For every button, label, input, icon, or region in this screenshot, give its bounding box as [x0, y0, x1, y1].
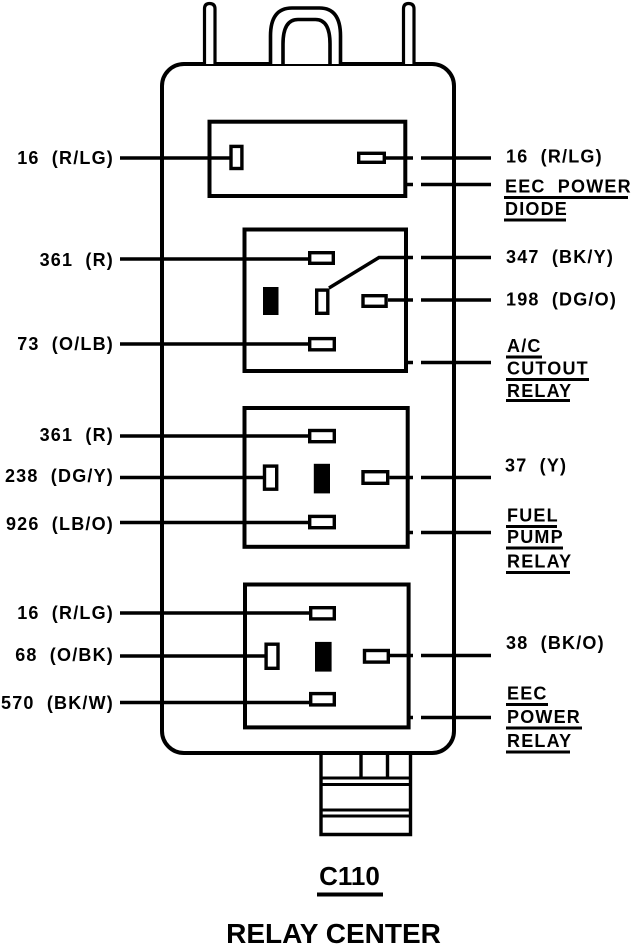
EEC relay top pin: [311, 608, 335, 619]
wire: leader EEC POWER DIODE: [407, 183, 491, 186]
wire: left leader 926 (LB/O) to fuel pump bottom pin: [120, 521, 309, 524]
wire: diagonal from middle pin to 347 (BK/Y): [329, 258, 407, 289]
EEC relay filled contact: [316, 643, 331, 671]
A/C relay right pin (horizontal): [363, 296, 386, 307]
svg-text:37 (Y): 37 (Y): [505, 456, 567, 476]
EEC power relay box: [245, 585, 409, 728]
svg-text:73 (O/LB): 73 (O/LB): [17, 334, 114, 354]
svg-text:RELAY: RELAY: [507, 731, 572, 751]
svg-text:198 (DG/O): 198 (DG/O): [506, 290, 617, 310]
svg-text:RELAY: RELAY: [507, 381, 572, 401]
tail horizontal line 3: [321, 809, 411, 812]
wire: left leader 361 (R) to fuel pump top pin: [120, 434, 309, 437]
A/C relay filled contact: [264, 288, 278, 314]
A/C relay bottom pin: [310, 339, 335, 350]
svg-text:16 (R/LG): 16 (R/LG): [506, 147, 603, 167]
wire: right leader FUEL PUMP RELAY: [410, 531, 492, 534]
wire: right leader 198 (DG/O): [388, 298, 491, 301]
label C110: [317, 861, 383, 895]
svg-text:EEC POWER: EEC POWER: [505, 177, 632, 197]
left top prong: [205, 4, 216, 65]
svg-text:PUMP: PUMP: [507, 527, 564, 547]
wire: left leader 16 (R/LG) to diode pin: [120, 156, 230, 159]
svg-text:RELAY CENTER: RELAY CENTER: [226, 918, 441, 948]
connector body outline: [162, 64, 454, 753]
fuel pump relay bottom pin: [310, 516, 335, 527]
svg-text:16 (R/LG): 16 (R/LG): [17, 603, 114, 623]
tail horizontal line 1: [321, 777, 411, 780]
wire: right leader 347 (BK/Y): [407, 256, 491, 259]
tail horizontal line 2: [321, 783, 411, 786]
wire: right leader A/C CUTOUT RELAY: [408, 361, 491, 364]
fuel pump relay left pin (vertical): [265, 466, 277, 489]
wire: left leader 361 (R) to A/C top pin: [120, 257, 309, 260]
svg-text:POWER: POWER: [507, 707, 581, 727]
svg-text:238 (DG/Y): 238 (DG/Y): [5, 466, 114, 486]
svg-text:361 (R): 361 (R): [40, 425, 114, 445]
fuel pump relay box: [245, 408, 408, 547]
label EEC POWER RELAY: [506, 684, 582, 753]
wire: left leader 570 (BK/W) to EEC relay bottom pin: [120, 701, 310, 704]
svg-text:926 (LB/O): 926 (LB/O): [6, 514, 114, 534]
tail horizontal line 4: [321, 815, 411, 818]
svg-text:361 (R): 361 (R): [40, 250, 114, 270]
diode pin right (horizontal): [359, 153, 385, 162]
wire: left leader 238 (DG/Y) to fuel pump left pin: [120, 476, 264, 479]
A/C relay middle pin (vertical): [317, 290, 328, 313]
latch handle outer arc: [271, 8, 341, 64]
A/C cutout relay box: [245, 230, 407, 372]
label FUEL PUMP RELAY: [506, 506, 572, 573]
diode pin left (vertical): [231, 146, 242, 168]
fuel pump relay top pin: [310, 431, 335, 442]
A/C relay top pin: [310, 253, 334, 264]
fuel pump relay right pin (horizontal): [363, 472, 388, 484]
wire: right leader 38 (BK/O): [390, 654, 491, 657]
svg-text:570 (BK/W): 570 (BK/W): [1, 693, 114, 713]
label EEC POWER DIODE: [504, 177, 632, 221]
svg-text:A/C: A/C: [507, 336, 542, 356]
wire: right leader 16 (R/LG): [386, 156, 491, 159]
tail divider vertical left: [359, 755, 362, 778]
svg-text:DIODE: DIODE: [505, 199, 568, 219]
wire: left leader 16 (R/LG) to EEC relay top pin: [120, 611, 310, 614]
svg-text:CUTOUT: CUTOUT: [507, 359, 589, 379]
svg-text:RELAY: RELAY: [507, 552, 572, 572]
wire: left leader 73 (O/LB) to A/C bottom pin: [120, 342, 309, 345]
svg-text:FUEL: FUEL: [507, 506, 559, 526]
bottom connector tail outline: [321, 755, 411, 835]
right top prong: [404, 4, 415, 65]
EEC relay left pin (vertical): [266, 644, 278, 668]
svg-text:C110: C110: [319, 861, 380, 891]
wire: left leader 68 (O/BK) to EEC relay left pin: [120, 654, 266, 657]
wire: right leader EEC POWER RELAY: [411, 716, 492, 719]
latch handle inner arc: [283, 20, 330, 65]
svg-text:EEC: EEC: [507, 684, 548, 704]
EEC relay right pin (horizontal): [365, 651, 389, 663]
svg-text:68 (O/BK): 68 (O/BK): [15, 645, 114, 665]
tail divider vertical right: [386, 755, 389, 778]
EEC power diode box: [210, 122, 406, 196]
svg-text:16 (R/LG): 16 (R/LG): [17, 148, 114, 168]
fuel pump relay filled contact: [315, 465, 329, 493]
EEC relay bottom pin: [311, 694, 335, 705]
label A/C CUTOUT RELAY: [506, 336, 589, 401]
svg-text:38 (BK/O): 38 (BK/O): [506, 633, 605, 653]
wire: right leader 37 (Y): [390, 476, 492, 479]
svg-text:347 (BK/Y): 347 (BK/Y): [506, 247, 614, 267]
